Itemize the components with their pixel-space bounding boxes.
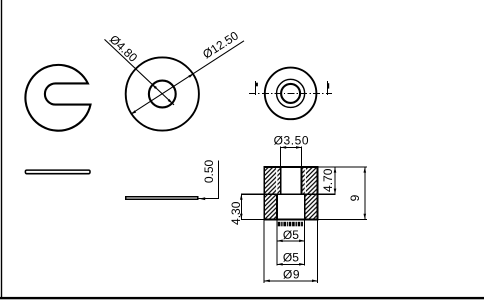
arrow D4.80 lower — [168, 99, 173, 104]
extension line top right — [318, 166, 367, 168]
section hatch sleeve bottom-right — [305, 195, 317, 219]
section outline — [264, 167, 317, 219]
svg-text:Ø5: Ø5 — [283, 250, 299, 264]
section marker left — [254, 81, 256, 95]
dimension 9 — [364, 167, 366, 219]
section hatch insert right wall — [302, 167, 305, 194]
section hatch sleeve top-right — [306, 167, 317, 194]
extension lines D9 — [263, 219, 265, 283]
tiny annotation blob — [278, 222, 303, 227]
bore edge right D3.5 — [301, 167, 303, 194]
extension lines D5 — [276, 219, 278, 265]
section hatch insert left wall — [277, 167, 280, 194]
section marker right — [326, 81, 328, 95]
svg-text:Ø9: Ø9 — [283, 267, 300, 281]
arrow D4.80 upper — [152, 84, 157, 89]
svg-text:4.70: 4.70 — [321, 168, 335, 192]
section hatch sleeve top-left — [265, 167, 277, 194]
bore edge right D5 — [304, 194, 306, 219]
bushing top view bore circle — [281, 84, 300, 103]
retaining ring C top view — [25, 65, 90, 131]
svg-text:Ø3.50: Ø3.50 — [274, 134, 309, 148]
washer side view — [125, 196, 198, 200]
washer inner circle — [149, 81, 176, 108]
svg-text:0.50: 0.50 — [202, 159, 216, 183]
dimension 0.50 extension line — [198, 198, 220, 200]
insert bottom edge — [277, 193, 305, 195]
dimension 0.50 line — [218, 160, 220, 198]
arrow D12.50 lower — [131, 110, 136, 114]
dimension D5 second — [277, 263, 305, 265]
svg-text:4.30: 4.30 — [229, 201, 243, 225]
washer outer circle — [126, 57, 199, 130]
dimension line D12.50 — [131, 41, 244, 114]
extension line y194 across — [241, 193, 336, 195]
dimension D9 — [264, 280, 317, 282]
bore edge left D5 — [276, 194, 278, 219]
bore edge left D3.5 — [280, 167, 282, 194]
svg-text:Ø5: Ø5 — [283, 228, 299, 242]
dimension D5 first — [277, 240, 305, 242]
arrow D12.50 upper — [188, 74, 193, 78]
extension line bottom — [241, 218, 367, 220]
dimension 4.70 — [334, 167, 336, 194]
dimension line D3.50 — [281, 146, 302, 148]
svg-text:9: 9 — [348, 194, 362, 201]
retaining ring side view — [25, 170, 90, 174]
bushing top view middle circle — [277, 79, 305, 107]
border bottom — [0, 297, 484, 299]
extension lines D3.50 — [280, 146, 282, 166]
bushing top view outer circle — [265, 68, 317, 120]
section hatch sleeve bottom-left — [265, 195, 277, 219]
border left — [1, 0, 2, 299]
centerline horizontal — [249, 92, 332, 94]
dimension 4.30 — [240, 194, 242, 219]
dimension leader D4.80 — [105, 39, 175, 105]
arrow 0.50 — [199, 197, 205, 200]
